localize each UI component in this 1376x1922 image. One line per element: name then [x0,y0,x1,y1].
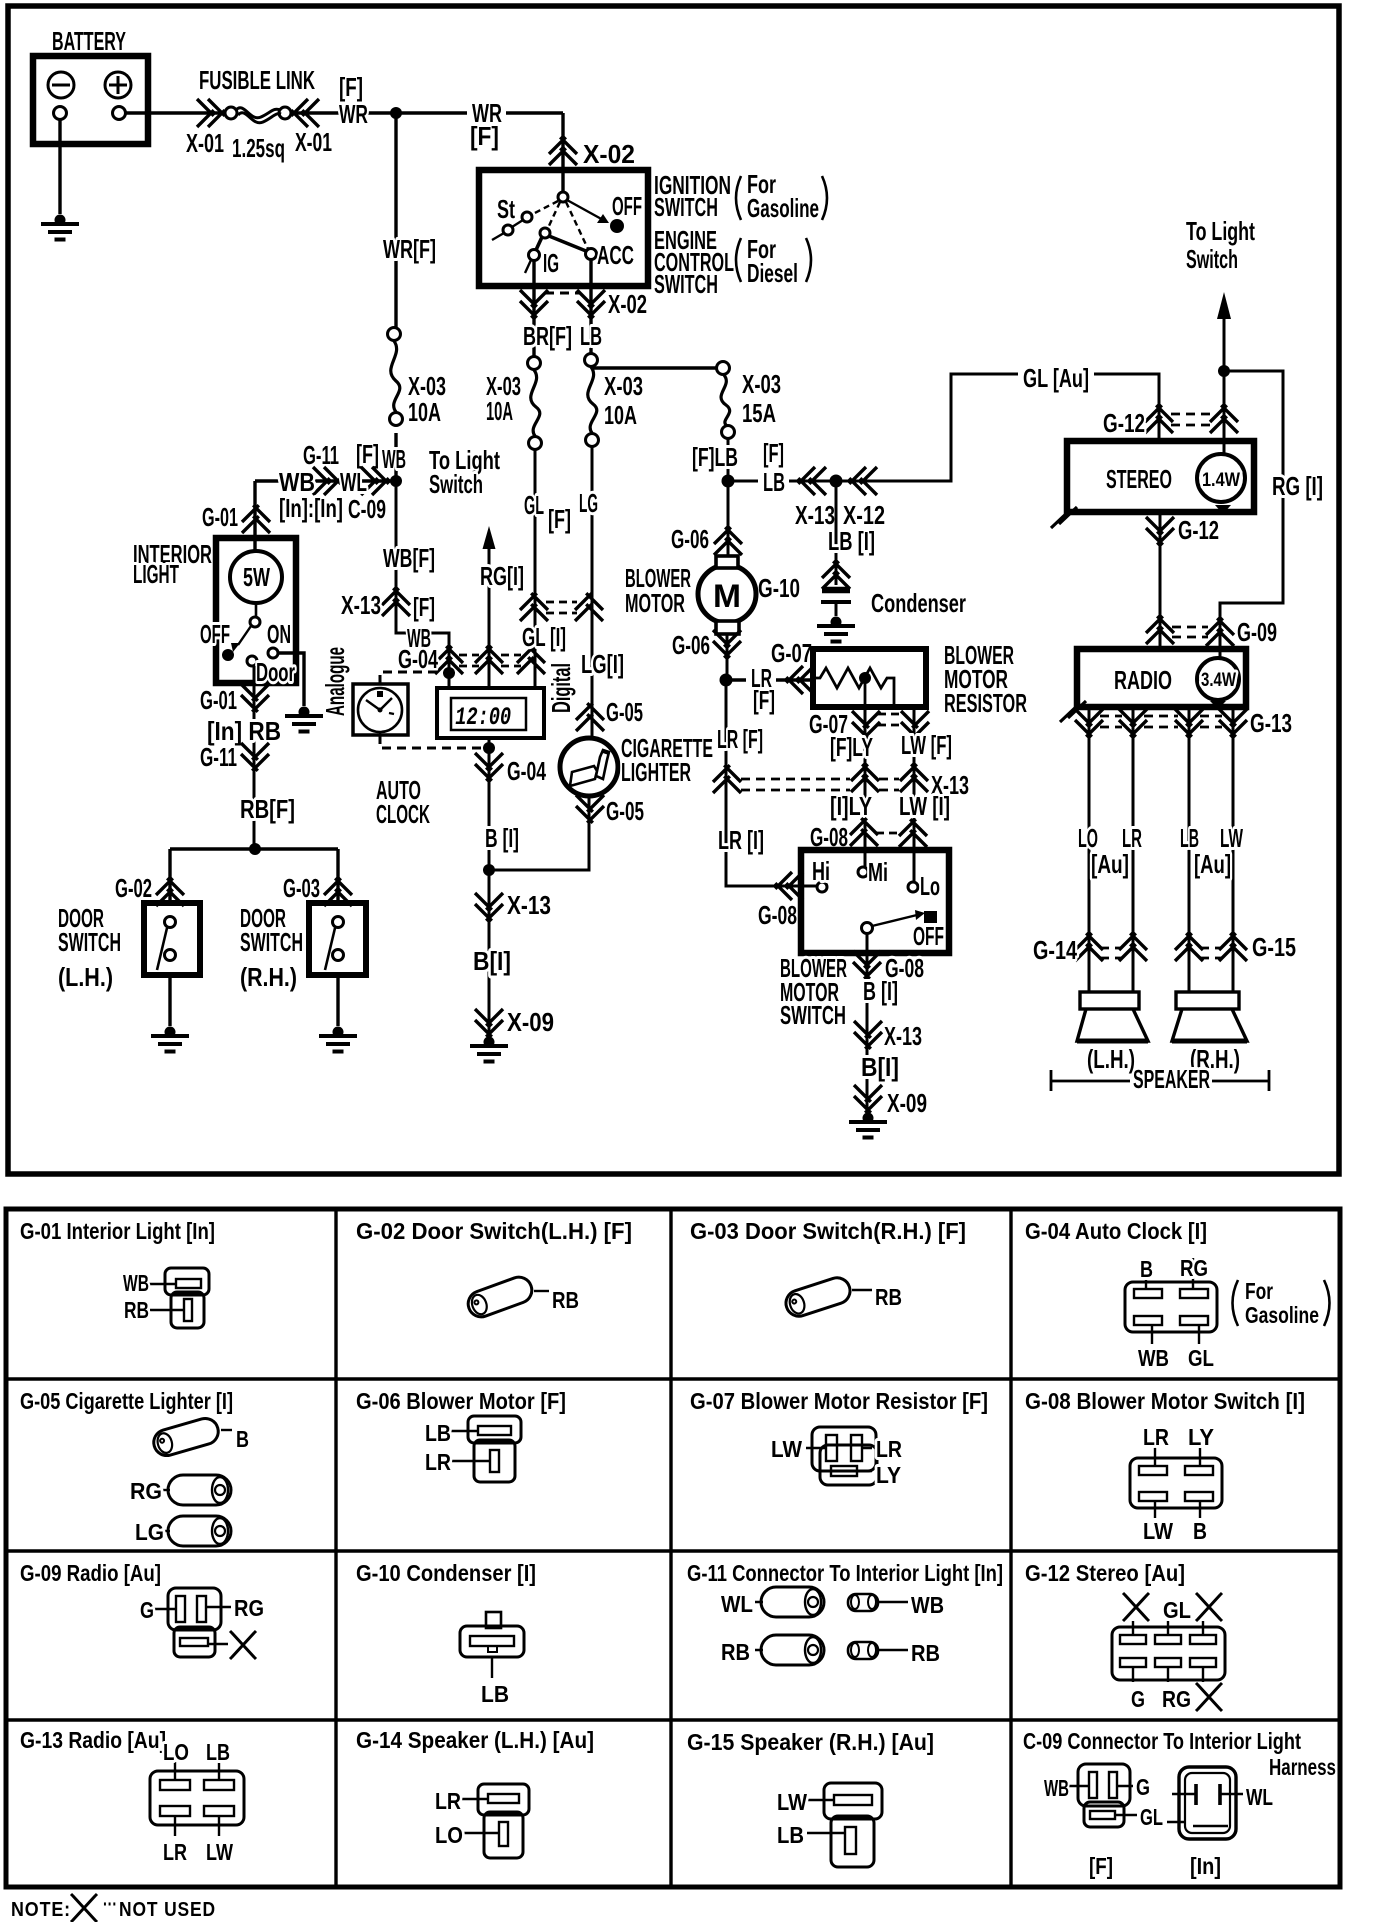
svg-text:LW: LW [1143,1518,1173,1544]
bulb 5W [230,551,282,603]
connector X-13 [854,1021,882,1049]
wire door contact down [253,666,256,849]
svg-text:[F]: [F] [548,504,571,534]
label GL [Au] [1018,366,1094,385]
wire GL below fuse [534,450,537,688]
condenser [821,590,851,616]
svg-text:G: G [1136,1774,1150,1800]
fuse X-03 10A (WR) [388,328,403,426]
switch contacts [817,867,937,934]
svg-text:SWITCH: SWITCH [240,927,303,957]
svg-text:Harness: Harness [1269,1754,1336,1780]
svg-text:X-13: X-13 [341,590,381,620]
not used stub stereo [1051,507,1077,528]
svg-text:WL: WL [340,467,367,497]
node LB junction [722,475,735,488]
svg-text:B [I]: B [I] [485,823,519,853]
svg-text:MOTOR: MOTOR [625,588,685,618]
svg-text:FUSIBLE LINK: FUSIBLE LINK [199,65,315,95]
svg-text:[I]LY: [I]LY [830,791,872,821]
connector G-10 drawing [460,1612,524,1678]
connector G-12 bottom [1146,517,1174,545]
svg-text:For: For [1245,1278,1273,1304]
svg-text:B[I]: B[I] [861,1052,899,1082]
node RG branch [1218,365,1230,377]
svg-text:BR[F]: BR[F] [523,321,572,351]
svg-text:G-15: G-15 [1252,932,1296,962]
wire switch output [866,933,869,1110]
svg-text:SWITCH: SWITCH [654,269,718,299]
connector G-05 B terminal [151,1415,222,1458]
connector G-12 top pair [1145,405,1173,433]
resistor element [813,668,894,706]
svg-text:C-09 Connector To Interior Lig: C-09 Connector To Interior Light [1023,1728,1301,1754]
svg-text:RG [I]: RG [I] [1272,471,1323,501]
wire motor to LR node [726,634,729,680]
wire WR[F] down [394,113,397,327]
svg-text:WB: WB [1044,1775,1069,1801]
svg-text:[F]: [F] [753,685,775,715]
svg-text:G-01: G-01 [202,502,238,532]
svg-text:[F]LY: [F]LY [830,732,873,762]
svg-text:G-01: G-01 [200,685,237,715]
svg-text:Digital: Digital [546,663,576,713]
connector G-04 bottom [475,753,503,781]
svg-text:SPEAKER: SPEAKER [1133,1064,1210,1094]
stereo bulb 1.4W [1197,454,1245,502]
radio bulb 3.4W [1197,658,1239,700]
connector G-11 chevrons right [313,467,341,495]
svg-text:G-09 Radio [Au]: G-09 Radio [Au] [20,1560,161,1586]
svg-text:ACC: ACC [597,240,634,270]
svg-text:G-04 Auto Clock [I]: G-04 Auto Clock [I] [1025,1218,1207,1244]
svg-text:X-09: X-09 [887,1088,927,1118]
svg-text:LW: LW [771,1436,802,1462]
svg-text:LIGHT: LIGHT [133,559,179,589]
svg-text:1.25sq: 1.25sq [232,133,285,163]
main diagram frame [8,6,1339,1174]
svg-text:RB: RB [552,1287,579,1313]
wire LY down [864,707,867,867]
svg-text:WR: WR [339,99,368,129]
svg-text:(L.H.): (L.H.) [58,962,113,992]
connector X-09 [854,1085,882,1113]
svg-text:LR: LR [435,1788,461,1814]
wire LH switch to ground [168,975,171,1026]
svg-text:LR: LR [1143,1424,1169,1450]
radio box [1077,649,1246,707]
svg-text:···: ··· [103,1894,117,1916]
svg-text:B: B [1140,1256,1153,1282]
connector G-11 bottom [241,743,269,771]
svg-text:X-09: X-09 [507,1007,554,1037]
svg-text:RB: RB [875,1284,902,1310]
connector G-12 drawing [1112,1621,1225,1682]
svg-text:G-14 Speaker (L.H.) [Au]: G-14 Speaker (L.H.) [Au] [356,1727,594,1753]
svg-text:OFF: OFF [200,619,230,649]
wire LR down and to Hi [726,680,818,886]
connector G-03 [324,878,352,906]
interior light box [216,538,296,683]
svg-text:G-14: G-14 [1033,935,1077,965]
ground battery [41,215,79,240]
svg-text:Gasoline: Gasoline [1245,1302,1319,1328]
svg-text:G-07: G-07 [771,638,812,668]
svg-text:RG: RG [1162,1686,1191,1712]
svg-text:RESISTOR: RESISTOR [944,688,1027,718]
node B[I] junction [483,864,495,876]
node clock B junction [483,742,495,754]
wire ACC down [589,259,592,353]
svg-text:BATTERY: BATTERY [52,26,126,56]
connector G-04 drawing [1125,1258,1217,1344]
svg-text:RB[F]: RB[F] [240,794,295,824]
door switch LH box [144,903,200,975]
battery [33,56,148,144]
cigarette lighter [560,738,618,796]
svg-text:Gasoline: Gasoline [747,193,819,223]
svg-text:WB: WB [123,1270,149,1296]
svg-text:Condenser: Condenser [871,588,966,618]
svg-text:LB: LB [425,1420,451,1446]
wire RG[I] branch [1220,371,1283,658]
svg-text:G-10: G-10 [758,573,800,603]
node G-04 WB junction [443,667,455,679]
wire lighter to B junction [489,796,589,870]
connector G-06 drawing [451,1416,521,1482]
svg-text:M: M [713,578,741,614]
svg-text:LR: LR [163,1839,187,1865]
connector G-07 drawing [806,1427,877,1485]
svg-text:G-02 Door Switch(L.H.) [F]: G-02 Door Switch(L.H.) [F] [356,1218,632,1244]
svg-text:X-01: X-01 [295,127,332,157]
connector X-01 left [197,99,225,127]
connector X-13 row [713,765,741,793]
svg-text:RADIO: RADIO [1114,665,1172,695]
svg-text:[Au]: [Au] [1091,849,1129,879]
svg-text:[In]:[In]: [In]:[In] [279,493,343,523]
connector G-05 RG terminal [168,1475,231,1505]
svg-text:RG: RG [234,1595,264,1621]
svg-text:G-12 Stereo [Au]: G-12 Stereo [Au] [1025,1560,1185,1586]
svg-text:G-06: G-06 [671,524,709,554]
svg-text:G-05 Cigarette Lighter [I]: G-05 Cigarette Lighter [I] [20,1388,233,1414]
svg-text:G: G [140,1597,154,1623]
svg-text:(L.H.): (L.H.) [1087,1044,1135,1074]
svg-text:15A: 15A [742,398,776,428]
svg-text:NOTE:: NOTE: [11,1899,71,1921]
node LR junction [720,674,733,687]
node RB junction [249,843,261,855]
svg-text:LR [I]: LR [I] [718,825,764,855]
connector G-01 drawing [149,1268,209,1328]
connector G-05 bottom [576,795,604,823]
connector C-09 F drawing [1068,1764,1137,1827]
wire IG down [532,260,535,356]
svg-text:LW: LW [206,1839,233,1865]
svg-text:[F]: [F] [470,121,499,151]
connector C-09 In drawing [1167,1767,1243,1839]
connector G-02 drawing [465,1273,536,1320]
wire WR to WB junction [394,433,397,481]
svg-text:Door: Door [256,657,295,687]
wire ON to ground [278,653,304,706]
svg-text:[Au]: [Au] [1194,849,1231,879]
svg-text:[F]LB: [F]LB [692,442,738,472]
wire RG with arrow to light switch [488,544,491,688]
wire LB to blower motor [727,481,730,556]
svg-text:G-06 Blower Motor [F]: G-06 Blower Motor [F] [356,1388,566,1414]
wire WB into clock [448,673,451,688]
connector G-14 drawing [461,1784,529,1858]
svg-text:B[I]: B[I] [473,946,511,976]
wire battery minus to ground [58,120,61,215]
svg-text:[F]: [F] [763,438,784,468]
svg-text:G-04: G-04 [398,644,438,674]
svg-text:X-03: X-03 [604,371,643,401]
svg-text:RB: RB [911,1640,940,1666]
svg-text:NOT USED: NOT USED [119,1899,216,1921]
ground blower switch [849,1113,887,1138]
svg-text:G-06: G-06 [672,630,710,660]
svg-text:C-09: C-09 [348,494,386,524]
svg-text:WR[F]: WR[F] [383,234,436,264]
svg-text:RG: RG [130,1478,162,1504]
wire condenser drop [835,481,838,585]
connector G-08 left chevron [775,872,803,900]
connector G-11 WL-WB pair [755,1587,908,1617]
connector G-11 RB-RB pair [755,1635,908,1665]
svg-text:ON: ON [267,619,291,649]
svg-text:G-15 Speaker (R.H.) [Au]: G-15 Speaker (R.H.) [Au] [687,1729,934,1755]
svg-text:3.4W: 3.4W [1201,670,1236,691]
connector G-10 [822,561,850,589]
svg-text:LR: LR [425,1449,451,1475]
connector G-03 drawing [783,1274,854,1319]
svg-text:[F]: [F] [356,439,379,469]
svg-text:LW: LW [777,1789,807,1815]
svg-text:To Light: To Light [1186,216,1255,246]
connector G-13 chevrons [1075,709,1103,737]
door switch RH box [309,903,366,975]
svg-text:LG[I]: LG[I] [581,649,624,679]
svg-text:12:00: 12:00 [453,703,513,732]
svg-text:Switch: Switch [1186,244,1238,274]
svg-text:LY: LY [1188,1424,1214,1450]
svg-text:WL: WL [1246,1784,1273,1810]
svg-text:G-11: G-11 [303,440,339,470]
svg-text:LW [F]: LW [F] [901,730,952,760]
stereo box [1067,441,1254,512]
connector G-08 drawing [1130,1447,1222,1518]
ground interior light [285,707,323,732]
svg-text:LR [F]: LR [F] [717,724,763,754]
connector X-13 left chevron [798,467,826,495]
connector G-05 LG terminal [168,1516,231,1546]
svg-text:G-03: G-03 [283,873,320,903]
wire interior light drop [253,481,256,552]
connector G-09 drawing [154,1588,231,1657]
svg-text:Lo: Lo [920,871,940,901]
svg-text:IG: IG [543,248,559,278]
connector G-13 drawing [150,1762,244,1836]
wire WB[F] down and jog [396,481,449,688]
connector X-13 on WB [382,588,410,616]
svg-text:Hi: Hi [812,856,830,886]
ground B[I] [470,1037,508,1062]
wire LB branch to 15A fuse [591,366,716,369]
svg-text:[F]: [F] [413,592,435,622]
connector G-15 drawing [807,1783,882,1867]
node WB junction [390,475,402,487]
svg-text:B: B [1193,1518,1207,1544]
svg-text:CLOCK: CLOCK [376,799,430,829]
connector G-07 bottom pair [852,711,880,739]
connector G-06 bottom [713,630,741,658]
svg-text:G-12: G-12 [1178,515,1219,545]
svg-text:St: St [497,194,515,224]
svg-text:G-03 Door Switch(R.H.) [F]: G-03 Door Switch(R.H.) [F] [690,1218,966,1244]
fuse X-03 15A [717,362,735,439]
svg-text:GL: GL [1188,1345,1214,1371]
svg-text:WB: WB [1138,1345,1169,1371]
svg-text:LIGHTER: LIGHTER [621,757,691,787]
svg-text:G-11 Connector To Interior Lig: G-11 Connector To Interior Light [In] [687,1560,1003,1586]
svg-text:G-04: G-04 [507,756,546,786]
auto clock analogue [353,684,408,735]
svg-text:LR: LR [876,1436,902,1462]
svg-text:OFF: OFF [612,191,642,221]
svg-text:RB: RB [721,1639,750,1665]
svg-text:G-12: G-12 [1103,408,1145,438]
svg-text:G-07 Blower Motor Resistor [F]: G-07 Blower Motor Resistor [F] [690,1388,988,1414]
svg-text:Switch: Switch [429,469,483,499]
svg-text:LB: LB [777,1822,804,1848]
svg-text:G-05: G-05 [606,796,644,826]
ignition switch internals [492,170,624,273]
connector X-13 on B [475,893,503,921]
svg-text:Analogue: Analogue [320,647,350,716]
light switch internals [222,603,278,666]
svg-text:X-02: X-02 [583,139,635,169]
svg-text:G-08 Blower Motor Switch [I]: G-08 Blower Motor Switch [I] [1025,1388,1305,1414]
connector table grid [6,1209,1340,1887]
dashed wire analogue bottom [380,735,482,748]
wire to door switches [170,849,338,903]
wire battery plus to junction [126,111,564,114]
connector G-02 [156,878,184,906]
connector G-08 bottom [853,951,881,979]
svg-text:5W: 5W [243,562,270,592]
svg-text:G-13 Radio [Au]: G-13 Radio [Au] [20,1727,166,1753]
svg-text:GL: GL [1140,1804,1163,1830]
svg-text:LO: LO [435,1822,463,1848]
svg-text:SWITCH: SWITCH [654,192,718,222]
svg-text:1.4W: 1.4W [1202,470,1240,491]
svg-text:X-01: X-01 [186,128,224,158]
connector X-13 on GL and LG [520,593,548,621]
svg-text:WB[F]: WB[F] [383,543,435,573]
connector X-12 chevron [849,467,877,495]
connector G-06 top [714,527,742,555]
svg-text:WB: WB [382,444,406,474]
connector G-01 bottom [241,684,269,712]
svg-text:LY: LY [876,1462,901,1488]
svg-text:WB: WB [911,1592,944,1618]
svg-text:[F]: [F] [339,72,363,102]
wire LG below fuse [591,447,594,738]
svg-text:LB: LB [763,467,785,497]
svg-text:10A: 10A [486,396,513,426]
blower motor [698,565,756,623]
svg-text:[In]: [In] [1190,1853,1221,1879]
svg-text:GL [Au]: GL [Au] [1023,363,1089,393]
wire RH switch to ground [336,975,339,1026]
svg-text:WL: WL [721,1591,753,1617]
svg-text:GL: GL [524,490,544,520]
connector X-02 top [549,137,577,165]
svg-text:GL: GL [1163,1597,1191,1623]
fuse X-03 10A (LB) [585,354,599,447]
wire WB-WL horizontal [255,479,396,482]
svg-text:G-10 Condenser [I]: G-10 Condenser [I] [356,1560,536,1586]
connector G-15 pair [1175,933,1203,961]
label WR [F] [467,103,506,120]
svg-text:LO: LO [163,1739,189,1765]
blower motor resistor box [813,649,926,707]
connector G-04 chevrons [435,646,463,674]
connector G-08 top pair [850,818,878,846]
connector X-01 right [291,99,319,127]
svg-text:LG: LG [135,1519,164,1545]
svg-text:RG: RG [1180,1255,1208,1281]
svg-text:SWITCH: SWITCH [58,927,121,957]
node condenser tap [830,475,843,488]
svg-text:[F]: [F] [1089,1853,1113,1879]
wire 15A to LB junction [727,439,730,481]
svg-text:B [I]: B [I] [863,976,898,1006]
svg-text:LG: LG [579,488,598,518]
svg-text:G-09: G-09 [1237,617,1277,647]
svg-text:G-05: G-05 [606,697,643,727]
svg-text:GL [I]: GL [I] [522,622,566,652]
svg-text:SWITCH: SWITCH [780,1000,846,1030]
wire LW down [913,707,916,882]
svg-text:LB: LB [481,1681,509,1707]
speaker LH [1077,992,1148,1041]
fuse X-03 10A (BR) [528,357,542,450]
svg-text:LB: LB [580,321,602,351]
svg-text:G-13: G-13 [1250,708,1292,738]
wire arrow to light switch [1223,312,1226,454]
svg-text:Diesel: Diesel [747,258,798,288]
svg-text:X-13: X-13 [507,890,551,920]
svg-text:10A: 10A [408,397,441,427]
wire to ignition switch [561,113,564,170]
svg-text:X-02: X-02 [608,289,647,319]
svg-text:Mi: Mi [868,857,888,887]
svg-text:X-03: X-03 [742,369,781,399]
svg-text:OFF: OFF [913,921,944,951]
svg-text:LB: LB [206,1739,230,1765]
connector X-09 [475,1009,503,1037]
ignition switch box [479,170,648,286]
wire LR to resistor [726,678,813,681]
connector G-09 pair [1146,616,1174,644]
wire radio outputs [1089,707,1233,992]
svg-text:G-08: G-08 [758,900,797,930]
auto clock digital box [437,688,544,738]
